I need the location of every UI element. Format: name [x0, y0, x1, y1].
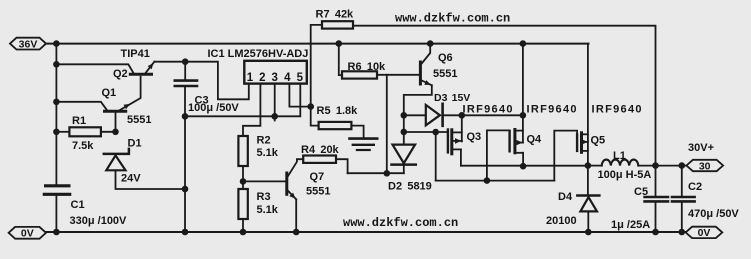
resistor R5 [319, 122, 352, 129]
capacitor C1 [44, 186, 69, 195]
svg-text:IC1 LM2576HV-ADJ: IC1 LM2576HV-ADJ [208, 48, 309, 60]
svg-text:30: 30 [699, 160, 711, 172]
diode D2 5819 [392, 145, 416, 165]
wire IC pin5 [275, 84, 301, 117]
svg-text:R7 42k: R7 42k [316, 9, 355, 21]
node 30 output tag [686, 160, 723, 171]
transistor Q5 IRF9640 [577, 133, 588, 153]
wire D1 anode to ground vertical [116, 170, 186, 189]
node 0V left tag [9, 227, 46, 239]
transistor Q3 IRF9640 [448, 130, 462, 154]
node junction 0V rail / Q7 emitter [293, 229, 300, 236]
resistor R6 [342, 71, 377, 78]
svg-text:R3: R3 [257, 191, 271, 203]
node junction 36V bus / R6 [336, 40, 343, 47]
node junction Q2 emitter / C3 / IC pin1 [182, 58, 189, 65]
node junction 0V rail / R3 [240, 229, 247, 236]
wire Q2 emitter to IC pin1 [154, 62, 248, 100]
wire IC pin3 ground [185, 84, 275, 121]
node junction D2 / gate line [401, 129, 408, 136]
svg-text:IRF9640: IRF9640 [592, 104, 643, 116]
node junction 36V bus / Q4 source [520, 40, 527, 47]
resistor R1 [69, 127, 101, 136]
node junction D1 anode / ground line [182, 186, 189, 193]
node junction left branch / Q1 collector [53, 99, 60, 106]
svg-text:100μ /50V: 100μ /50V [188, 102, 239, 114]
svg-text:Q2: Q2 [113, 68, 128, 80]
wire gate bus vertical [435, 132, 437, 181]
wire Q2 collector feed [56, 64, 133, 73]
svg-text:24V: 24V [121, 173, 141, 185]
wire Q7 base [243, 180, 286, 182]
svg-text:D4: D4 [558, 191, 573, 203]
node junction 0V rail / IC ground [182, 229, 189, 236]
svg-text:D2 5819: D2 5819 [388, 181, 432, 193]
wire Q3 drain leg [460, 149, 462, 165]
svg-text:1μ /25A: 1μ /25A [611, 219, 650, 231]
svg-text:5.1k: 5.1k [257, 204, 279, 216]
node junction 36V bus / left branch [53, 40, 60, 47]
wire R3 bottom [242, 219, 244, 232]
svg-text:R5 1.8k: R5 1.8k [317, 105, 359, 117]
wire Q1 collector feed [56, 102, 107, 110]
resistor R7 [322, 21, 353, 28]
wire IC pin2 to R2 [243, 84, 260, 136]
node junction left branch / R1 [53, 129, 60, 136]
node junction Q6 emitter / D3 anode / D2 [401, 112, 408, 119]
wire R6 right to Q6 base [377, 74, 419, 76]
wire R1 right to node [101, 131, 116, 133]
transistor Q7 5551 [287, 173, 296, 199]
wire R5 right to ground [351, 126, 363, 138]
node junction R2 / R3 / Q7 base [240, 178, 247, 185]
wire Q3 source vertical [461, 115, 463, 141]
svg-text:30V+: 30V+ [688, 142, 714, 154]
svg-text:5551: 5551 [306, 186, 330, 198]
wire Q6 emitter to gate node [404, 85, 432, 115]
svg-text:Q6: Q6 [438, 52, 453, 64]
wire C3 top [184, 62, 186, 80]
node junction source bus / Q3 source [459, 112, 466, 119]
svg-text:5551: 5551 [433, 68, 457, 80]
wire source bus [444, 114, 523, 116]
wire R6 left [339, 44, 342, 76]
node junction R1 / D1 / Q1 base [112, 129, 119, 136]
wire C2 vertical [681, 166, 683, 232]
wire D2 top [403, 115, 405, 144]
wire drain bus [461, 165, 588, 167]
svg-text:4: 4 [284, 72, 291, 84]
wire left vertical branch [55, 44, 57, 232]
wire C5 vertical [655, 166, 657, 232]
resistor R2 [238, 136, 247, 166]
svg-text:100μ H-5A: 100μ H-5A [598, 169, 652, 181]
svg-text:36V: 36V [19, 38, 38, 50]
wire D4 top [587, 166, 589, 195]
wire D4 bottom [587, 211, 589, 232]
wire L1 right to output [638, 165, 686, 167]
diode D3 zener 15V [426, 104, 443, 126]
wire 0V bottom rail [46, 231, 686, 233]
resistor R3 [238, 189, 247, 219]
wire L1 left [588, 165, 602, 167]
wire IC pin4 feedback [289, 84, 310, 107]
wire gate bus lower [436, 180, 555, 182]
diode D1 zener 24V [104, 149, 129, 170]
svg-text:330μ /100V: 330μ /100V [70, 215, 128, 227]
node junction drain bus / Q4 drain [520, 163, 527, 170]
wire Q7 emitter leg [295, 199, 297, 232]
svg-text:C2: C2 [688, 181, 702, 193]
node junction 0V rail / C5 [652, 229, 659, 236]
svg-text:2: 2 [259, 72, 265, 84]
node junction R4 route / R6 vertical [384, 170, 391, 177]
wire R1 left [56, 131, 69, 133]
svg-text:www.dzkfw.com.cn: www.dzkfw.com.cn [343, 216, 458, 230]
svg-text:0V: 0V [698, 227, 711, 239]
svg-text:5551: 5551 [127, 114, 151, 126]
svg-text:Q4: Q4 [527, 133, 543, 145]
svg-text:5: 5 [297, 72, 304, 84]
wire R7 left leg [311, 25, 322, 107]
svg-text:www.dzkfw.com.cn: www.dzkfw.com.cn [395, 12, 510, 26]
svg-text:3: 3 [271, 72, 277, 84]
svg-text:L1: L1 [613, 150, 626, 162]
resistor R4 [303, 156, 336, 163]
capacitor C3 [175, 81, 197, 86]
wire Q4 gate tap [487, 130, 510, 180]
svg-text:Q1: Q1 [102, 87, 117, 99]
node junction left branch / Q2 collector [53, 61, 60, 68]
diode D4 20100 [577, 196, 599, 212]
wire R6 node to R4 node vertical [386, 75, 388, 174]
node 0V right tag [686, 227, 723, 238]
svg-text:D3 15V: D3 15V [434, 92, 470, 104]
svg-text:5.1k: 5.1k [257, 147, 279, 159]
svg-text:1: 1 [247, 72, 254, 84]
node 36V input tag [10, 38, 46, 50]
capacitor C5 [645, 197, 668, 201]
transistor Q1 5551 [105, 77, 141, 132]
wire R5 left [311, 107, 319, 126]
wire R7 feedback top line [353, 26, 656, 166]
svg-text:470μ /50V: 470μ /50V [688, 208, 739, 220]
wire Q4 drain leg [522, 153, 524, 166]
svg-text:R2: R2 [257, 135, 271, 147]
capacitor C2 [672, 197, 695, 201]
node junction 0V rail / D4 [585, 229, 592, 236]
node junction source bus / Q4 source [520, 112, 527, 119]
svg-text:IRF9640: IRF9640 [463, 104, 514, 116]
wire D3 anode [404, 114, 426, 116]
node junction C3 ground / IC pin3 [182, 113, 189, 120]
node junction 0V rail / C1 [53, 229, 60, 236]
svg-text:D1: D1 [128, 138, 142, 150]
wire R4 lower route [348, 172, 404, 174]
wire R2 bottom to R3 top [242, 166, 244, 189]
wire 36V top bus [46, 43, 589, 45]
transistor Q2 TIP41 [130, 62, 154, 74]
wire R4 right [336, 159, 348, 173]
node junction gate line / gate bus [432, 129, 439, 136]
transistor Q4 IRF9640 [510, 130, 523, 153]
wire Q6 collector [422, 44, 430, 64]
svg-text:0V: 0V [21, 228, 34, 240]
node junction 0V rail / C2 [679, 229, 686, 236]
svg-text:Q7: Q7 [310, 171, 325, 183]
op-amp U1 IC body LM2576 [244, 61, 306, 84]
svg-text:R4 20k: R4 20k [301, 144, 340, 156]
node junction 36V bus / Q6 collector [427, 40, 434, 47]
node junction feedback node R7/R5/pin4 [307, 103, 314, 110]
svg-text:20100: 20100 [546, 215, 577, 227]
wire Q5 source-drain vertical [587, 44, 589, 166]
wire Q4 source vertical [522, 44, 524, 143]
svg-text:Q5: Q5 [591, 134, 606, 146]
node junction output / C5 / R7 feedback [652, 162, 659, 169]
wire Q7 collector to R4 [288, 159, 303, 176]
inductor L1 [602, 160, 639, 166]
wire C3 bottom / IC ground vertical [184, 87, 186, 232]
node junction IC pin3 / pin5 [271, 113, 278, 120]
wire D2 bottom [403, 165, 405, 173]
node junction gate bus / Q4 gate [484, 177, 491, 184]
svg-text:IRF9640: IRF9640 [527, 104, 578, 116]
svg-text:R6 10k: R6 10k [348, 61, 387, 73]
svg-text:TIP41: TIP41 [121, 48, 150, 60]
node junction switch node Q5 drain / L1 / D4 [585, 162, 592, 169]
svg-text:7.5k: 7.5k [72, 140, 94, 152]
wire gate node line [404, 131, 448, 133]
transistor Q6 5551 [420, 62, 431, 85]
node junction output / C2 [679, 162, 686, 169]
svg-text:Q3: Q3 [467, 131, 482, 143]
ground [350, 139, 378, 150]
wire Q5 gate tap [554, 131, 577, 181]
svg-text:C5: C5 [634, 186, 648, 198]
svg-text:R1: R1 [72, 115, 86, 127]
svg-text:C1: C1 [71, 199, 85, 211]
